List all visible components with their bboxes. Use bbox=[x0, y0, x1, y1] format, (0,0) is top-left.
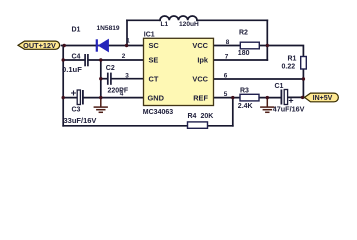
junction: left rail / C4 wire bbox=[62, 58, 65, 61]
svg-text:Ipk: Ipk bbox=[197, 56, 209, 65]
svg-text:REF: REF bbox=[193, 93, 208, 102]
svg-text:220PF: 220PF bbox=[108, 88, 129, 95]
svg-text:SC: SC bbox=[149, 41, 160, 50]
junction: R2 / top rail / pin7 bbox=[266, 44, 269, 47]
inductor L1 bbox=[160, 16, 197, 20]
svg-text:VCC: VCC bbox=[192, 74, 208, 83]
svg-text:IC1: IC1 bbox=[144, 32, 155, 39]
port IN+5V bbox=[305, 93, 339, 102]
svg-text:OUT+12V: OUT+12V bbox=[23, 41, 56, 50]
svg-text:C3: C3 bbox=[72, 107, 81, 114]
wire: right vertical rail down to pin7 bbox=[266, 20, 268, 60]
svg-text:2.4K: 2.4K bbox=[238, 103, 253, 110]
svg-text:MC34063: MC34063 bbox=[143, 109, 173, 116]
resistor R4 box bbox=[188, 122, 208, 128]
IC IC1 MC34063 body bbox=[144, 38, 214, 105]
wire: mini rail to C2 left bbox=[101, 78, 107, 80]
svg-text:5: 5 bbox=[224, 91, 228, 98]
wire: R1 bottom to IN node bbox=[302, 69, 304, 97]
svg-text:VCC: VCC bbox=[192, 41, 208, 50]
svg-text:R3: R3 bbox=[240, 88, 249, 95]
wire: C2 right to IC pin3 CT bbox=[112, 78, 144, 80]
wire: bottom wire left of R4 bbox=[63, 125, 187, 127]
ground symbol right bbox=[260, 98, 274, 113]
svg-text:D1: D1 bbox=[72, 26, 81, 33]
wire: C1 to IN port bbox=[288, 96, 305, 98]
svg-text:0.1uF: 0.1uF bbox=[62, 65, 82, 74]
wire: OUT port to diode cathode bbox=[62, 45, 97, 47]
resistor R1 box bbox=[301, 57, 307, 70]
svg-text:8: 8 bbox=[226, 39, 230, 46]
wire: R2 to corner above R1 bbox=[259, 46, 303, 57]
svg-text:R4: R4 bbox=[188, 113, 197, 120]
wire: vertical from diode junction to top rail bbox=[126, 20, 128, 45]
svg-text:20K: 20K bbox=[201, 113, 214, 120]
wire: pin7 Ipk to rail bbox=[214, 59, 268, 61]
svg-text:33uF/16V: 33uF/16V bbox=[64, 116, 97, 125]
svg-text:47uF/16V: 47uF/16V bbox=[273, 105, 305, 114]
svg-text:180: 180 bbox=[238, 50, 250, 57]
junction: ground rail / GND wire bbox=[99, 96, 102, 99]
wire: left rail to C3 bbox=[63, 97, 77, 99]
svg-text:IN+5V: IN+5V bbox=[313, 95, 333, 102]
junction: port OUT to left rail bbox=[62, 44, 65, 47]
junction: diode cathode node to top rail bbox=[125, 44, 128, 47]
ground symbol left bbox=[94, 98, 108, 113]
capacitor C2 plates bbox=[108, 73, 111, 85]
wire: C3 to IC pin4 GND bbox=[84, 97, 144, 99]
svg-text:R2: R2 bbox=[239, 30, 248, 37]
wire: top rail right of L1 bbox=[197, 19, 267, 21]
svg-text:SE: SE bbox=[149, 56, 159, 65]
svg-text:C4: C4 bbox=[72, 54, 81, 61]
wire: pin6 VCC to R1 bottom junction bbox=[214, 78, 304, 80]
svg-text:0.22: 0.22 bbox=[282, 63, 296, 70]
junction: REF wire / bottom riser bbox=[231, 96, 234, 99]
svg-text:C2: C2 bbox=[106, 65, 115, 72]
junction: pin6 VCC wire / R1 bottom bbox=[302, 77, 305, 80]
capacitor C1 electrolytic bbox=[281, 90, 293, 105]
svg-text:120uH: 120uH bbox=[179, 21, 199, 28]
svg-text:CT: CT bbox=[149, 74, 159, 83]
wire: pin5 REF to C1 bbox=[214, 97, 282, 99]
svg-text:C1: C1 bbox=[275, 83, 284, 90]
svg-text:L1: L1 bbox=[161, 21, 169, 28]
svg-text:7: 7 bbox=[225, 54, 229, 61]
svg-text:3: 3 bbox=[125, 72, 129, 79]
svg-text:6: 6 bbox=[224, 73, 228, 80]
wire: mini ground rail bbox=[100, 60, 102, 98]
svg-text:2: 2 bbox=[122, 53, 126, 60]
resistor R2 box bbox=[240, 42, 259, 49]
junction: C2 / ground rail bbox=[99, 77, 102, 80]
wire: pin8 to R2 bbox=[214, 45, 241, 47]
svg-text:R1: R1 bbox=[288, 55, 297, 62]
wire: top rail left of L1 bbox=[127, 19, 160, 21]
wire: diode anode to IC pin1 SC bbox=[96, 45, 144, 47]
resistor R3 box bbox=[240, 94, 259, 101]
wire: left vertical rail bbox=[62, 46, 64, 126]
junction: SE wire / ground rail bbox=[99, 58, 102, 61]
diode D1 1N5819 bbox=[97, 39, 109, 52]
svg-text:1: 1 bbox=[126, 38, 130, 45]
junction: left rail / C3 wire bbox=[62, 96, 65, 99]
svg-text:1N5819: 1N5819 bbox=[97, 25, 120, 32]
svg-text:GND: GND bbox=[148, 93, 165, 102]
wire: pin2 SE to C4 bbox=[63, 59, 84, 61]
junction: ground 2 stem on REF wire bbox=[266, 96, 269, 99]
wire: pin5 junction down to bottom wire bbox=[232, 98, 234, 126]
junction: C1 / IN port node bbox=[301, 96, 304, 99]
wire: C4 to IC pin2 bbox=[89, 59, 144, 61]
port OUT+12V bbox=[18, 41, 60, 50]
wire: R4 to riser at pin5 net bbox=[208, 125, 233, 127]
capacitor C4 plates bbox=[85, 54, 88, 66]
capacitor C3 electrolytic bbox=[71, 90, 83, 105]
